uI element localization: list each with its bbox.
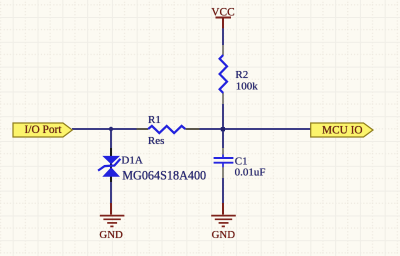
svg-text:MCU IO: MCU IO <box>322 125 362 137</box>
svg-text:100k: 100k <box>236 81 259 93</box>
svg-text:D1A: D1A <box>121 154 142 166</box>
svg-text:GND: GND <box>212 229 236 241</box>
svg-text:Res: Res <box>148 135 165 147</box>
svg-text:MG064S18A400: MG064S18A400 <box>122 168 206 182</box>
svg-text:GND: GND <box>99 229 123 241</box>
svg-text:R2: R2 <box>235 69 248 81</box>
svg-text:VCC: VCC <box>211 7 234 19</box>
svg-text:0.01uF: 0.01uF <box>235 166 266 178</box>
svg-text:I/O Port: I/O Port <box>24 124 62 136</box>
svg-text:R1: R1 <box>148 114 161 126</box>
